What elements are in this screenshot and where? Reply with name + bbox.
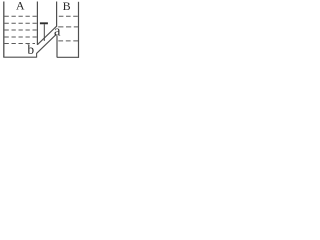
- tank A left wall: [3, 2, 5, 58]
- water dash row B1: [59, 15, 78, 17]
- svg-text:A: A: [16, 0, 25, 13]
- svg-text:B: B: [63, 0, 71, 13]
- tank B left wall lower: [56, 36, 58, 58]
- svg-text:a: a: [54, 23, 61, 39]
- water dash row A4: [5, 36, 38, 38]
- water dash row A3: [5, 29, 38, 31]
- tap stem: [43, 24, 45, 41]
- water dash row A5: [5, 43, 36, 45]
- tank B bottom: [57, 56, 79, 58]
- water dash row A1: [5, 15, 38, 17]
- tube lower wall riser at tank A corner: [36, 53, 38, 58]
- tap handle bar: [40, 22, 48, 24]
- tank B left wall upper: [56, 2, 58, 27]
- tank A bottom: [3, 56, 36, 58]
- water dash row B2: [58, 26, 78, 28]
- tank B right wall: [78, 2, 80, 58]
- tank A right wall: [36, 2, 38, 45]
- tube lower wall: [37, 34, 57, 53]
- tube upper wall: [37, 26, 56, 45]
- svg-text:b: b: [27, 42, 34, 57]
- water dash row A2: [5, 22, 38, 24]
- water dash row B3: [58, 40, 78, 42]
